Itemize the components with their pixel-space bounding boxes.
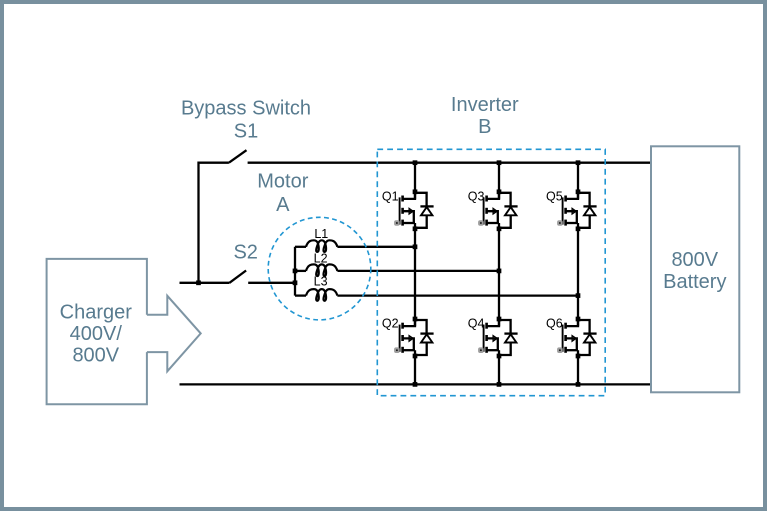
svg-text:Charger: Charger [60, 302, 133, 324]
svg-text:L1: L1 [314, 227, 328, 241]
svg-text:Q6: Q6 [546, 317, 563, 331]
svg-text:Inverter: Inverter [451, 94, 519, 116]
svg-text:Motor: Motor [257, 170, 308, 192]
svg-text:B: B [478, 116, 491, 138]
svg-text:Battery: Battery [663, 271, 726, 293]
svg-text:Q5: Q5 [546, 189, 563, 203]
svg-text:Bypass Switch: Bypass Switch [181, 97, 311, 119]
svg-text:Q1: Q1 [382, 189, 399, 203]
svg-text:Q4: Q4 [468, 317, 485, 331]
svg-text:L3: L3 [314, 275, 328, 289]
svg-text:Q3: Q3 [468, 189, 485, 203]
svg-text:Q2: Q2 [382, 317, 399, 331]
svg-text:S1: S1 [234, 120, 258, 142]
svg-text:800V: 800V [671, 249, 718, 271]
svg-text:L2: L2 [314, 251, 328, 265]
svg-text:400V/: 400V/ [70, 323, 123, 345]
svg-text:800V: 800V [72, 345, 119, 367]
svg-text:A: A [276, 194, 290, 216]
svg-text:S2: S2 [233, 241, 257, 263]
